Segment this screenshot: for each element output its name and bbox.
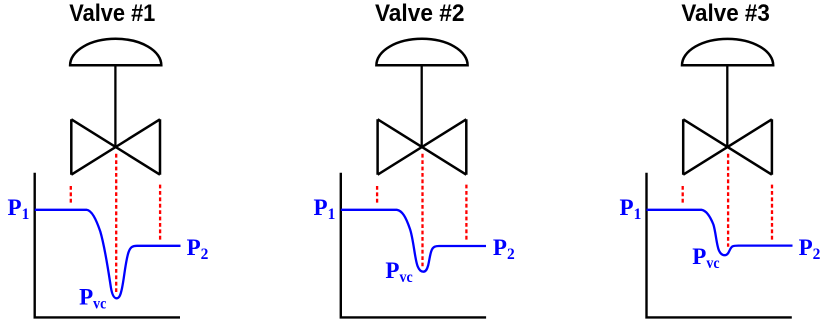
svg-text:Pvc: Pvc [385,258,412,286]
V3 pressure curve [647,210,793,255]
V3 graph axes [645,173,792,318]
svg-text:P2: P2 [799,235,821,263]
valve V2 body (bowtie) [378,119,467,174]
valve V2 actuator dome [376,39,467,65]
svg-text:P2: P2 [493,235,515,263]
V2 projection line left (red dotted) [376,186,378,203]
svg-text:Valve #2: Valve #2 [375,0,465,27]
V1 projection line center (red dotted) [115,154,117,292]
V2 projection line right (red dotted) [465,185,467,240]
V1 projection line left (red dotted) [70,186,72,203]
V1 graph axes [34,173,181,318]
V2 graph axes [340,173,487,318]
svg-text:P2: P2 [187,235,209,263]
V3 projection line left (red dotted) [682,186,684,203]
svg-text:P1: P1 [620,195,642,223]
V3 projection line right (red dotted) [771,185,773,240]
svg-text:Valve #3: Valve #3 [681,0,770,27]
valve V2 stem [421,65,423,147]
valve V3 stem [726,65,728,147]
valve V3 actuator dome [682,39,773,65]
V3 projection line center (red dotted) [727,154,729,247]
svg-text:P1: P1 [8,195,30,223]
svg-text:P1: P1 [314,195,336,223]
svg-text:Pvc: Pvc [79,285,106,313]
V2 projection line center (red dotted) [421,154,423,266]
valve V3 body (bowtie) [683,119,772,174]
V1 pressure curve [35,210,181,298]
svg-text:Pvc: Pvc [692,244,719,272]
svg-text:Valve #1: Valve #1 [69,0,155,27]
valve V1 stem [114,65,116,147]
V1 projection line right (red dotted) [159,185,161,240]
V2 pressure curve [341,210,486,272]
valve V1 actuator dome [70,39,161,65]
valve V1 body (bowtie) [71,119,160,174]
